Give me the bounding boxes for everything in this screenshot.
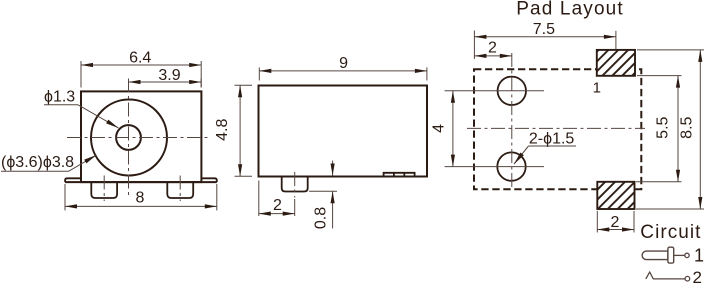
circuit pin 1 symbol: center pin (642, 251, 668, 260)
side view foot centerline (294, 172, 296, 198)
hole 1 (498, 77, 526, 105)
dimension 9 (258, 67, 260, 80)
svg-text:ϕ1.3: ϕ1.3 (44, 89, 75, 106)
dimension 6.4 (80, 61, 82, 88)
horizontal centerline front view (67, 137, 208, 139)
dimension 7.5 (473, 31, 475, 60)
part horizontal centerline (467, 127, 645, 129)
dimension 0.8 (332, 161, 334, 176)
dimension 8 (64, 184, 66, 210)
right foot centerline (179, 176, 181, 202)
front view right foot (167, 182, 193, 198)
svg-text:8: 8 (136, 190, 145, 207)
dimension 4.8 (235, 84, 253, 86)
svg-text:0.8: 0.8 (312, 207, 329, 229)
front view bottom edge (65, 181, 217, 183)
hole 2 horizontal centerline (445, 166, 544, 168)
hole 2 (497, 152, 525, 180)
label phi3.8 leader (1, 170, 69, 172)
svg-text:4: 4 (431, 124, 448, 133)
dimension 3.9 (200, 79, 202, 88)
svg-text:2-ϕ1.5: 2-ϕ1.5 (529, 131, 575, 148)
svg-text:2: 2 (488, 39, 497, 56)
svg-text:5.5: 5.5 (655, 116, 672, 138)
svg-text:2: 2 (273, 197, 282, 214)
svg-text:1: 1 (694, 245, 704, 265)
terminal strip (384, 173, 415, 177)
hole inner circle (116, 125, 141, 150)
left foot centerline (103, 176, 105, 202)
svg-text:6.4: 6.4 (129, 49, 151, 66)
dimension 4 (452, 91, 454, 167)
svg-text:2: 2 (693, 268, 702, 283)
side view foot (282, 177, 308, 192)
svg-text:Pad Layout: Pad Layout (516, 0, 624, 20)
svg-text:1: 1 (593, 80, 601, 97)
svg-text:7.5: 7.5 (533, 21, 555, 38)
svg-text:4.8: 4.8 (214, 118, 231, 140)
dimension 8.5 (637, 49, 704, 51)
svg-text:9: 9 (339, 55, 348, 72)
pad 1 hatched (597, 50, 635, 76)
vertical centerline front view (128, 79, 130, 197)
side view body (259, 86, 428, 177)
pad layout dashed outline (474, 69, 641, 189)
front view body (81, 91, 201, 182)
svg-text:(ϕ3.6)ϕ3.8: (ϕ3.6)ϕ3.8 (1, 154, 74, 171)
front view right wing tab (201, 178, 216, 182)
circuit pin 2 symbol: spring contact (646, 272, 685, 279)
front view left wing tab (65, 178, 81, 182)
vertical centerline through holes (511, 53, 513, 187)
svg-text:3.9: 3.9 (158, 67, 180, 84)
svg-text:8.5: 8.5 (679, 116, 696, 138)
dimension 2 side view (258, 181, 260, 217)
front view left foot (91, 182, 117, 198)
dimension 2 bottom (596, 211, 598, 233)
dimension 2 top (474, 55, 511, 57)
svg-text:Circuit: Circuit (640, 222, 701, 243)
bushing outer circle (91, 100, 167, 176)
pad 2 hatched (597, 182, 634, 209)
hole 1 horizontal centerline (445, 90, 544, 92)
dimension 5.5 (637, 75, 682, 77)
svg-text:2: 2 (610, 214, 619, 231)
